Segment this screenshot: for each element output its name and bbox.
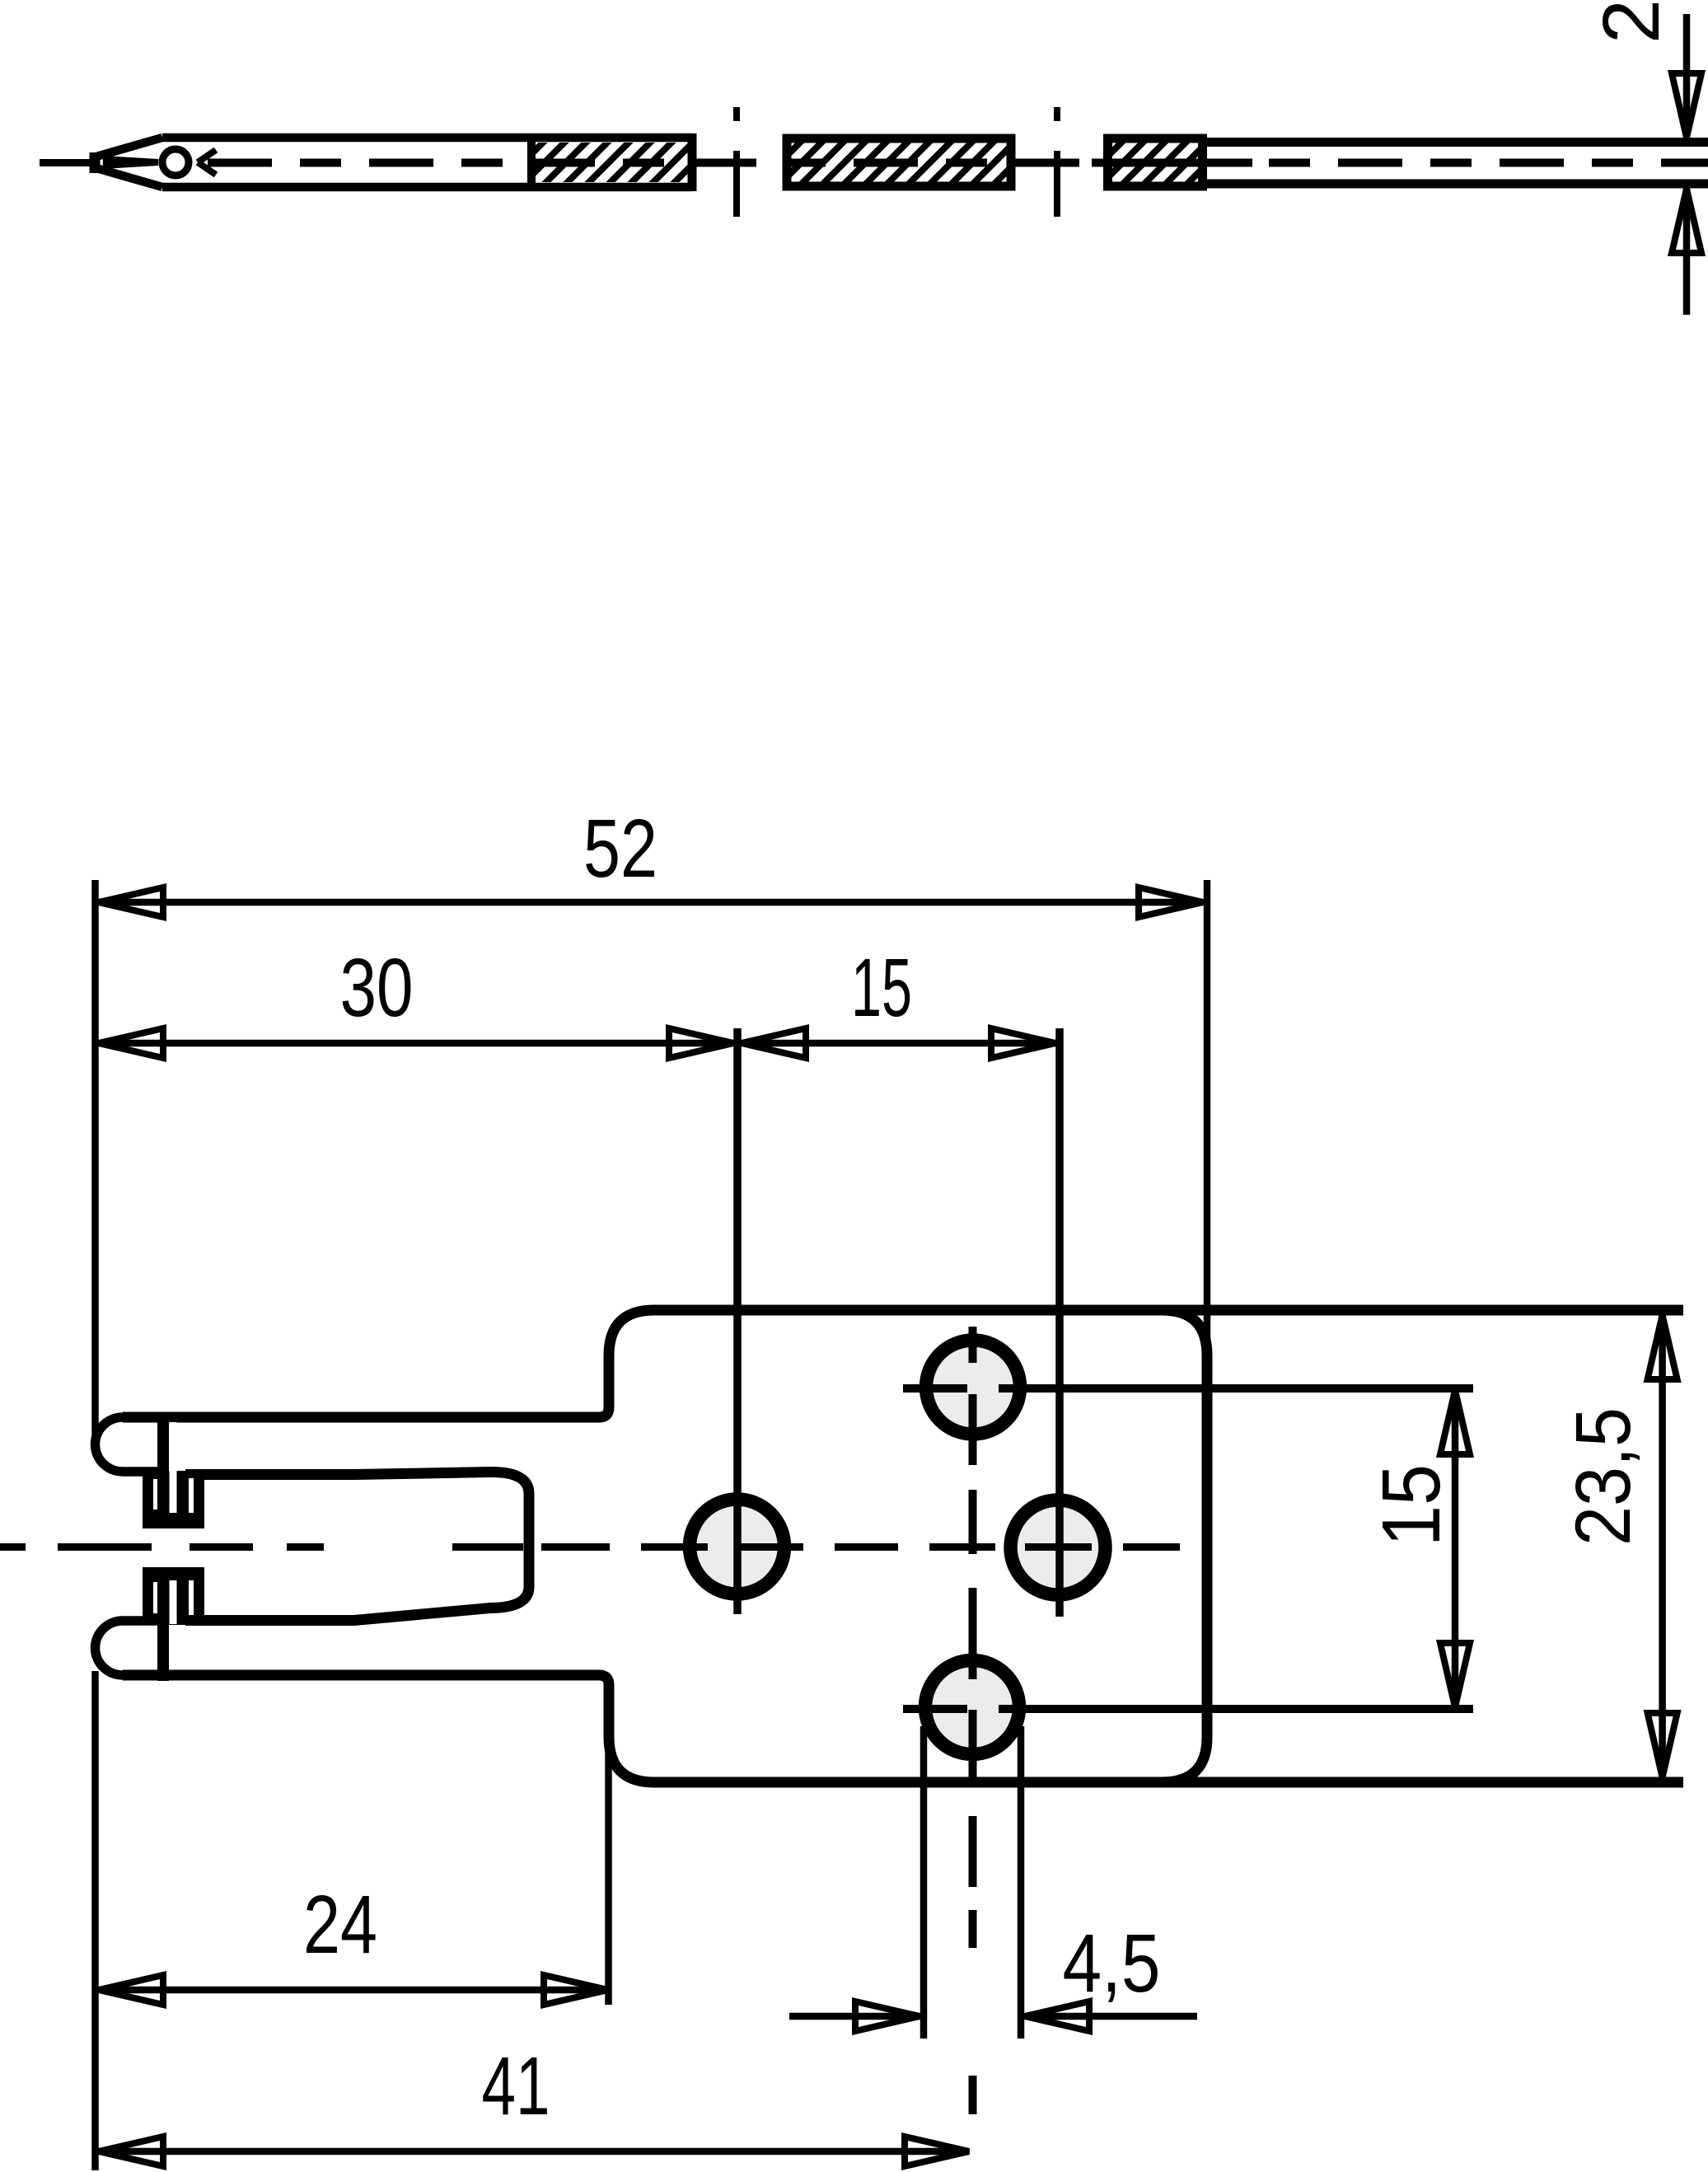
svg-text:52: 52 (583, 803, 657, 895)
svg-text:15: 15 (1365, 1464, 1458, 1547)
svg-text:23,5: 23,5 (1560, 1407, 1647, 1546)
svg-text:24: 24 (303, 1879, 377, 1971)
svg-text:30: 30 (340, 942, 414, 1034)
svg-text:4,5: 4,5 (1063, 1917, 1161, 2010)
svg-text:15: 15 (851, 942, 912, 1034)
svg-text:41: 41 (482, 2040, 550, 2132)
svg-text:2: 2 (1586, 0, 1676, 44)
